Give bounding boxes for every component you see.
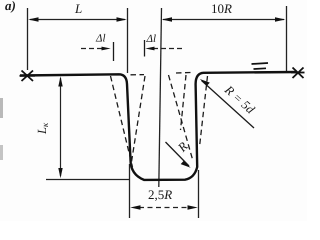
extension line right of L: [127, 8, 129, 73]
extension line left of L: [27, 8, 29, 70]
svg-text:Δl: Δl: [146, 33, 157, 45]
svg-text:Lк: Lк: [35, 122, 50, 135]
svg-text:R = 5d: R = 5d: [221, 82, 258, 117]
dimension L: [30, 19, 125, 21]
equality surface mark: [252, 63, 269, 64]
dimension 2.5R: [139, 207, 189, 209]
dashed surface inside right: [176, 71, 194, 74]
dimension 10R: [163, 19, 284, 21]
dashed former wall D: [200, 76, 208, 145]
svg-text:Δl: Δl: [95, 33, 106, 45]
tick delta-l right: [144, 40, 146, 57]
svg-text:10R: 10R: [211, 1, 232, 16]
bottom reference line: [46, 179, 129, 181]
Lk dimension line: [60, 78, 62, 176]
dashed surface inside left: [131, 74, 145, 76]
dashed former wall C2: [181, 75, 187, 130]
solid profile of the channel: [20, 72, 297, 180]
svg-text:2,5R: 2,5R: [148, 187, 172, 202]
tick delta-l left: [113, 42, 115, 61]
svg-text:L: L: [74, 1, 82, 16]
extension line right of 2.5R: [198, 170, 200, 218]
dashed former wall B: [131, 76, 145, 165]
leader delta-l left: [81, 48, 103, 50]
X break mark left: [20, 71, 36, 82]
leader delta-l right: [153, 48, 183, 50]
centerline: [159, 8, 162, 187]
svg-text:а): а): [5, 0, 16, 13]
X break mark right: [291, 68, 305, 79]
dashed former wall A: [111, 76, 133, 167]
extension line right of 10R: [286, 6, 288, 72]
dashed former wall C: [169, 75, 194, 161]
extension line left of 2.5R: [129, 164, 131, 218]
leader R bottom: [166, 142, 190, 166]
scan smudges: [0, 98, 3, 118]
leader R = 5d: [202, 81, 255, 129]
